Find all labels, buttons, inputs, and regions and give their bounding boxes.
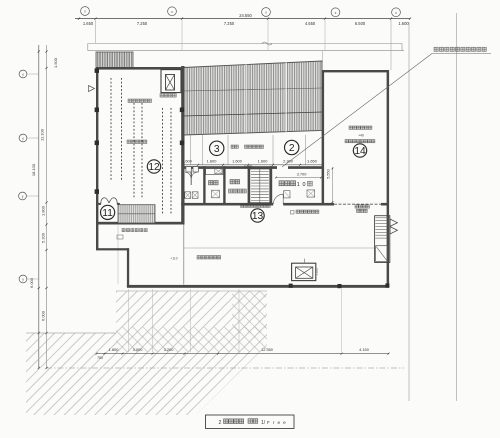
top dimension line (75, 18, 410, 20)
svg-text:+110: +110 (170, 257, 177, 261)
room12 bottom wall (96, 222, 185, 225)
mid rooms top wall (185, 166, 324, 169)
room 14 number (353, 144, 366, 157)
interior walls (203, 166, 205, 205)
svg-text:24.550: 24.550 (239, 13, 252, 18)
roof note text mid (231, 145, 234, 148)
svg-text:3.200: 3.200 (164, 347, 175, 352)
left grid markers (19, 70, 27, 78)
stairs SE (375, 216, 390, 263)
svg-text:750: 750 (97, 356, 103, 360)
lift label (160, 94, 164, 98)
kimitsu room label (279, 181, 284, 186)
svg-text:11: 11 (102, 208, 113, 219)
room12 left wall (96, 67, 98, 225)
lower-left wall step (96, 224, 98, 250)
svg-text:6.500: 6.500 (355, 21, 366, 26)
room 12 number (147, 160, 160, 173)
bottom dimension line (97, 353, 390, 355)
lower-left small text (122, 229, 125, 232)
sliding door note (355, 205, 358, 208)
svg-text:5.200: 5.200 (41, 232, 46, 243)
hall ceiling text (197, 256, 201, 260)
left dimension lines (38, 45, 40, 368)
svg-text:1 0: 1 0 (297, 182, 306, 188)
svg-text:x: x (335, 11, 337, 15)
svg-text:1.600: 1.600 (398, 21, 409, 26)
souko label (230, 180, 234, 184)
svg-text:3: 3 (214, 144, 220, 155)
svg-text:1.600: 1.600 (182, 158, 193, 163)
svg-text:18.100: 18.100 (31, 163, 36, 176)
svg-text:1.600: 1.600 (207, 158, 218, 163)
svg-text:x: x (395, 11, 397, 15)
ground hatch polygons (116, 291, 267, 415)
mid rooms bottom wall (181, 203, 389, 206)
title block (206, 415, 295, 429)
room14 top wall (322, 70, 389, 72)
svg-text:4.550: 4.550 (305, 21, 316, 26)
site boundary road lines (88, 43, 402, 45)
room14 right wall (387, 70, 390, 288)
vestibule wall (96, 203, 101, 205)
room12 ceiling text (128, 99, 132, 103)
top grid markers X1-X5 (81, 7, 90, 16)
svg-text:F r e e: F r e e (267, 420, 287, 425)
left extension ticks to markers (27, 73, 39, 75)
kyuto counter (206, 168, 223, 175)
mid dimension line (184, 164, 324, 166)
svg-text:x: x (265, 11, 267, 15)
svg-text:1.600: 1.600 (232, 158, 243, 163)
locker label (229, 189, 233, 193)
building bottom wall (127, 285, 389, 288)
room14 left wall (322, 70, 325, 206)
svg-text:1.650: 1.650 (307, 158, 318, 163)
room 3 number (210, 141, 224, 155)
kyuto label (209, 181, 213, 185)
svg-text:1.800: 1.800 (41, 205, 46, 216)
accordion curtain label (241, 205, 244, 208)
room12 right wall (181, 66, 184, 225)
elevator EV (292, 263, 316, 280)
svg-text:4.150: 4.150 (359, 347, 370, 352)
svg-text:11.100: 11.100 (40, 128, 45, 141)
canopy hatched (96, 52, 133, 68)
toilet fixtures (185, 192, 191, 199)
svg-text:1/: 1/ (261, 420, 266, 426)
svg-text:+40: +40 (358, 134, 364, 138)
mid cell divider lines (190, 135, 192, 165)
kimitsu door arc (273, 194, 283, 204)
svg-text:1.500: 1.500 (53, 57, 58, 68)
room 2 number (285, 140, 299, 154)
leader line and note (282, 54, 432, 168)
room14 ceiling texts (349, 126, 352, 129)
room12 top wall (96, 67, 185, 70)
svg-text:14: 14 (354, 146, 366, 157)
svg-text:6.000: 6.000 (41, 310, 46, 321)
svg-text:1.600: 1.600 (258, 158, 269, 163)
site south boundary dashed (46, 367, 404, 369)
svg-text:3.000: 3.000 (133, 347, 144, 352)
bottom extension lines (128, 289, 130, 352)
svg-text:7.250: 7.250 (224, 21, 235, 26)
movable partition tracks room12 (110, 78, 112, 180)
site east boundary lines (408, 22, 410, 401)
lift shaft (161, 70, 181, 93)
svg-text:12.350: 12.350 (261, 347, 274, 352)
small rect mark (117, 235, 123, 239)
entrance steps hatch (118, 205, 155, 223)
mid stairs (250, 169, 270, 203)
double door room11 (101, 198, 109, 205)
svg-text:7.250: 7.250 (137, 21, 148, 26)
svg-text:2: 2 (219, 420, 222, 426)
svg-text:x: x (171, 10, 173, 14)
svg-text:13: 13 (252, 211, 264, 222)
room 11 number (101, 205, 115, 219)
svg-text:1.800: 1.800 (109, 347, 120, 352)
svg-text:1.650: 1.650 (83, 21, 94, 26)
hall divider light lines (183, 225, 185, 285)
svg-text:x: x (84, 10, 86, 14)
room 13 number (251, 209, 264, 222)
toilet stalls (190, 169, 192, 185)
wall column markers (95, 68, 99, 73)
top extension lines (95, 20, 97, 43)
entry arrow triangle (89, 86, 95, 92)
svg-text:12: 12 (148, 162, 160, 173)
svg-text:5.550: 5.550 (327, 169, 331, 179)
skylight label (291, 211, 295, 215)
svg-text:3.700: 3.700 (297, 171, 308, 176)
kimitsu fixtures (284, 191, 290, 198)
svg-text:3.200: 3.200 (244, 164, 253, 168)
roof hatch area (184, 61, 323, 135)
svg-text:2: 2 (289, 143, 295, 154)
kyuto fixture (212, 190, 220, 198)
stairs door triangles (390, 219, 397, 226)
svg-text:1.100: 1.100 (315, 268, 319, 276)
room12 partition text (127, 140, 131, 144)
